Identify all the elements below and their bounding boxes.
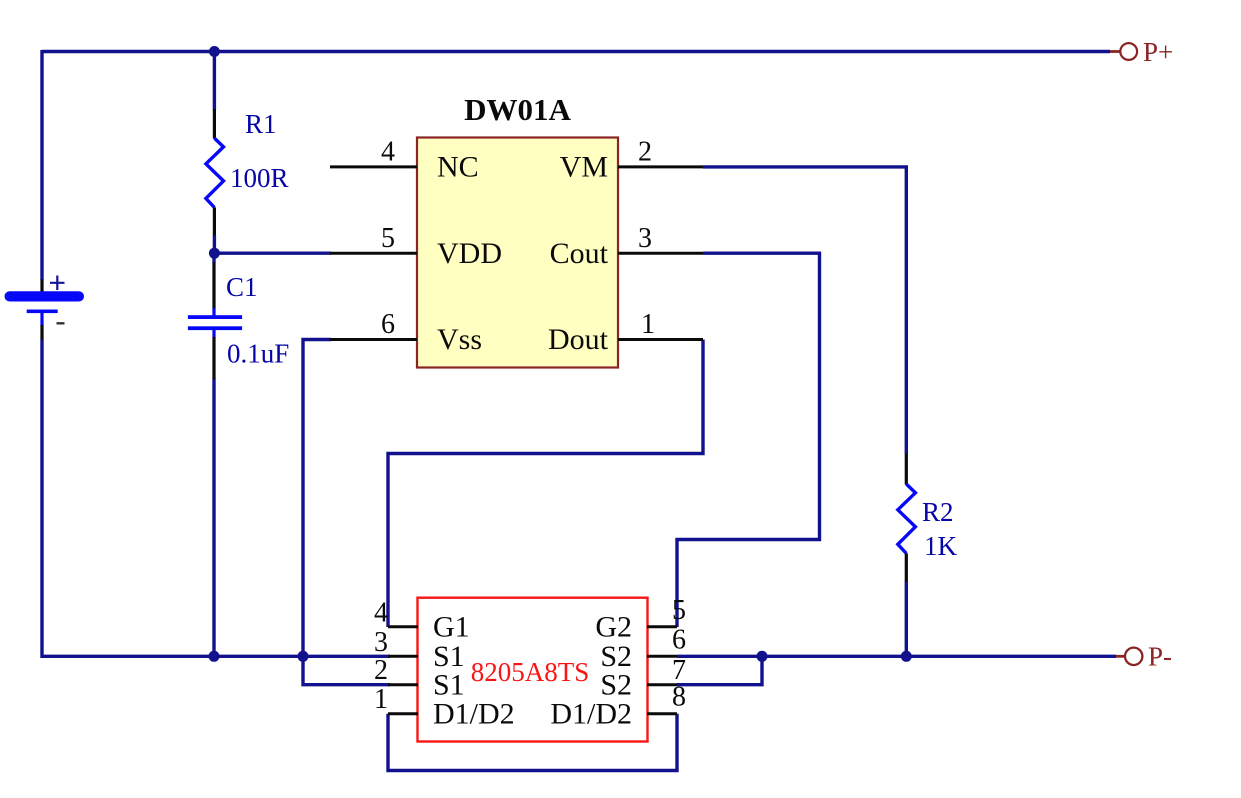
svg-text:6: 6 bbox=[672, 624, 686, 655]
IC U2 8205A8TS body bbox=[418, 598, 648, 742]
svg-text:D1/D2: D1/D2 bbox=[433, 697, 515, 730]
terminal P+ stub bbox=[1110, 50, 1120, 53]
wire R1 top connection bbox=[213, 52, 216, 111]
capacitor C1 bottom pin lead bbox=[212, 337, 215, 379]
svg-text:6: 6 bbox=[381, 309, 395, 340]
IC U2 pin 4 lead bbox=[388, 625, 418, 628]
terminal P+ circle bbox=[1120, 43, 1137, 60]
IC U1 pin 1 lead bbox=[618, 338, 703, 341]
svg-text:8205A8TS: 8205A8TS bbox=[471, 657, 590, 687]
capacitor C1 top plate bbox=[188, 315, 242, 319]
wire C1 bottom to B- rail bbox=[212, 379, 215, 657]
svg-text:Dout: Dout bbox=[548, 323, 609, 356]
svg-text:Cout: Cout bbox=[550, 237, 609, 270]
capacitor C1 bottom plate bbox=[188, 326, 242, 330]
svg-text:D1/D2: D1/D2 bbox=[550, 697, 632, 730]
resistor R1 top pin lead bbox=[213, 109, 216, 138]
svg-text:G1: G1 bbox=[433, 610, 470, 643]
wire R1 bottom to VDD node bbox=[213, 235, 216, 253]
battery BT1 negative plate bbox=[27, 310, 58, 314]
svg-text:3: 3 bbox=[374, 627, 388, 658]
svg-text:G2: G2 bbox=[595, 610, 632, 643]
IC U2 pin 6 lead bbox=[647, 655, 677, 658]
battery BT1 top pin lead bbox=[40, 280, 43, 293]
svg-text:2: 2 bbox=[638, 137, 652, 168]
svg-text:P+: P+ bbox=[1143, 37, 1173, 67]
wire S2 pins to P- rail bbox=[677, 655, 1116, 658]
battery BT1 plus sign bbox=[50, 276, 65, 291]
wire Cout net: pin 3 to G2 pin 5 bbox=[677, 253, 820, 627]
IC U2 pin 1 lead bbox=[388, 712, 418, 715]
svg-text:R1: R1 bbox=[245, 109, 277, 139]
svg-text:1K: 1K bbox=[924, 531, 958, 561]
capacitor C1 bottom stub bbox=[212, 330, 215, 339]
svg-text:4: 4 bbox=[381, 137, 395, 168]
wire battery negative down to B- rail and right to pin S1 bbox=[42, 339, 390, 656]
terminal P- circle bbox=[1125, 648, 1142, 665]
wire Vss net: pin 6 left, down, to pin 2 S1 bbox=[303, 340, 390, 685]
wire R2 bottom to P- rail bbox=[905, 581, 908, 656]
IC U2 pin 8 lead bbox=[647, 712, 677, 715]
battery BT1 bottom stub bbox=[40, 312, 43, 326]
svg-text:NC: NC bbox=[437, 151, 479, 184]
svg-text:C1: C1 bbox=[226, 272, 258, 302]
junction dot R2 bottom on P- rail bbox=[901, 651, 912, 662]
IC U2 pin 7 lead bbox=[647, 683, 677, 686]
junction dot VDD node bbox=[209, 248, 220, 259]
wire D1/D2 loop below 8205 bbox=[388, 714, 677, 771]
IC U1 pin 6 lead bbox=[330, 338, 417, 341]
resistor R2 bottom pin lead bbox=[905, 553, 908, 581]
junction dot S2 pins on P- rail bbox=[757, 651, 768, 662]
svg-text:0.1uF: 0.1uF bbox=[227, 339, 289, 369]
svg-text:8: 8 bbox=[672, 682, 686, 713]
battery BT1 positive plate bbox=[5, 291, 85, 301]
svg-text:5: 5 bbox=[381, 223, 395, 254]
svg-text:100R: 100R bbox=[230, 163, 289, 193]
svg-text:Vss: Vss bbox=[437, 323, 482, 356]
wire top rail B+ (battery plus to P+) bbox=[42, 50, 1110, 53]
resistor R1 zigzag body bbox=[206, 138, 224, 207]
junction dot C1 bottom on B- rail bbox=[209, 651, 220, 662]
svg-text:3: 3 bbox=[638, 223, 652, 254]
svg-text:2: 2 bbox=[374, 655, 388, 686]
IC U1 pin 3 lead bbox=[618, 252, 703, 255]
wire Dout net: pin 1 to G1 pin 4 bbox=[388, 340, 703, 628]
capacitor C1 top stub bbox=[212, 308, 215, 316]
capacitor C1 top pin lead bbox=[212, 263, 215, 310]
battery BT1 minus sign bbox=[57, 322, 65, 324]
svg-text:1: 1 bbox=[641, 309, 655, 340]
wire S2 pin 7 up to rail bbox=[677, 656, 762, 684]
svg-text:VM: VM bbox=[560, 151, 608, 184]
junction dot top rail / R1 bbox=[209, 46, 220, 57]
svg-text:5: 5 bbox=[672, 595, 686, 626]
IC U2 pin 5 lead bbox=[647, 625, 677, 628]
op IC U1 DW01A body bbox=[417, 138, 618, 368]
IC U1 pin 2 lead bbox=[618, 165, 703, 168]
wire left rail (top to battery +) bbox=[40, 50, 43, 280]
battery BT1 bottom pin lead bbox=[40, 325, 43, 340]
wire VM net: pin 2 to R2 top bbox=[703, 167, 906, 454]
resistor R2 zigzag body bbox=[898, 484, 916, 553]
svg-text:R2: R2 bbox=[922, 497, 954, 527]
svg-text:VDD: VDD bbox=[437, 237, 502, 270]
svg-text:1: 1 bbox=[374, 684, 388, 715]
svg-text:P-: P- bbox=[1148, 642, 1172, 672]
resistor R2 top pin lead bbox=[905, 454, 908, 485]
svg-text:4: 4 bbox=[374, 597, 388, 628]
IC U2 pin 3 lead bbox=[388, 655, 418, 658]
wire VDD node to pin 5 bbox=[214, 251, 331, 254]
resistor R1 bottom pin lead bbox=[213, 207, 216, 235]
svg-text:DW01A: DW01A bbox=[464, 92, 571, 127]
junction dot Vss net on B- rail bbox=[298, 651, 309, 662]
terminal P- stub bbox=[1116, 655, 1125, 658]
IC U1 pin 4 lead bbox=[330, 165, 417, 168]
IC U1 pin 5 lead bbox=[330, 252, 417, 255]
IC U2 pin 2 lead bbox=[388, 683, 418, 686]
wire C1 top connection bbox=[212, 253, 215, 263]
